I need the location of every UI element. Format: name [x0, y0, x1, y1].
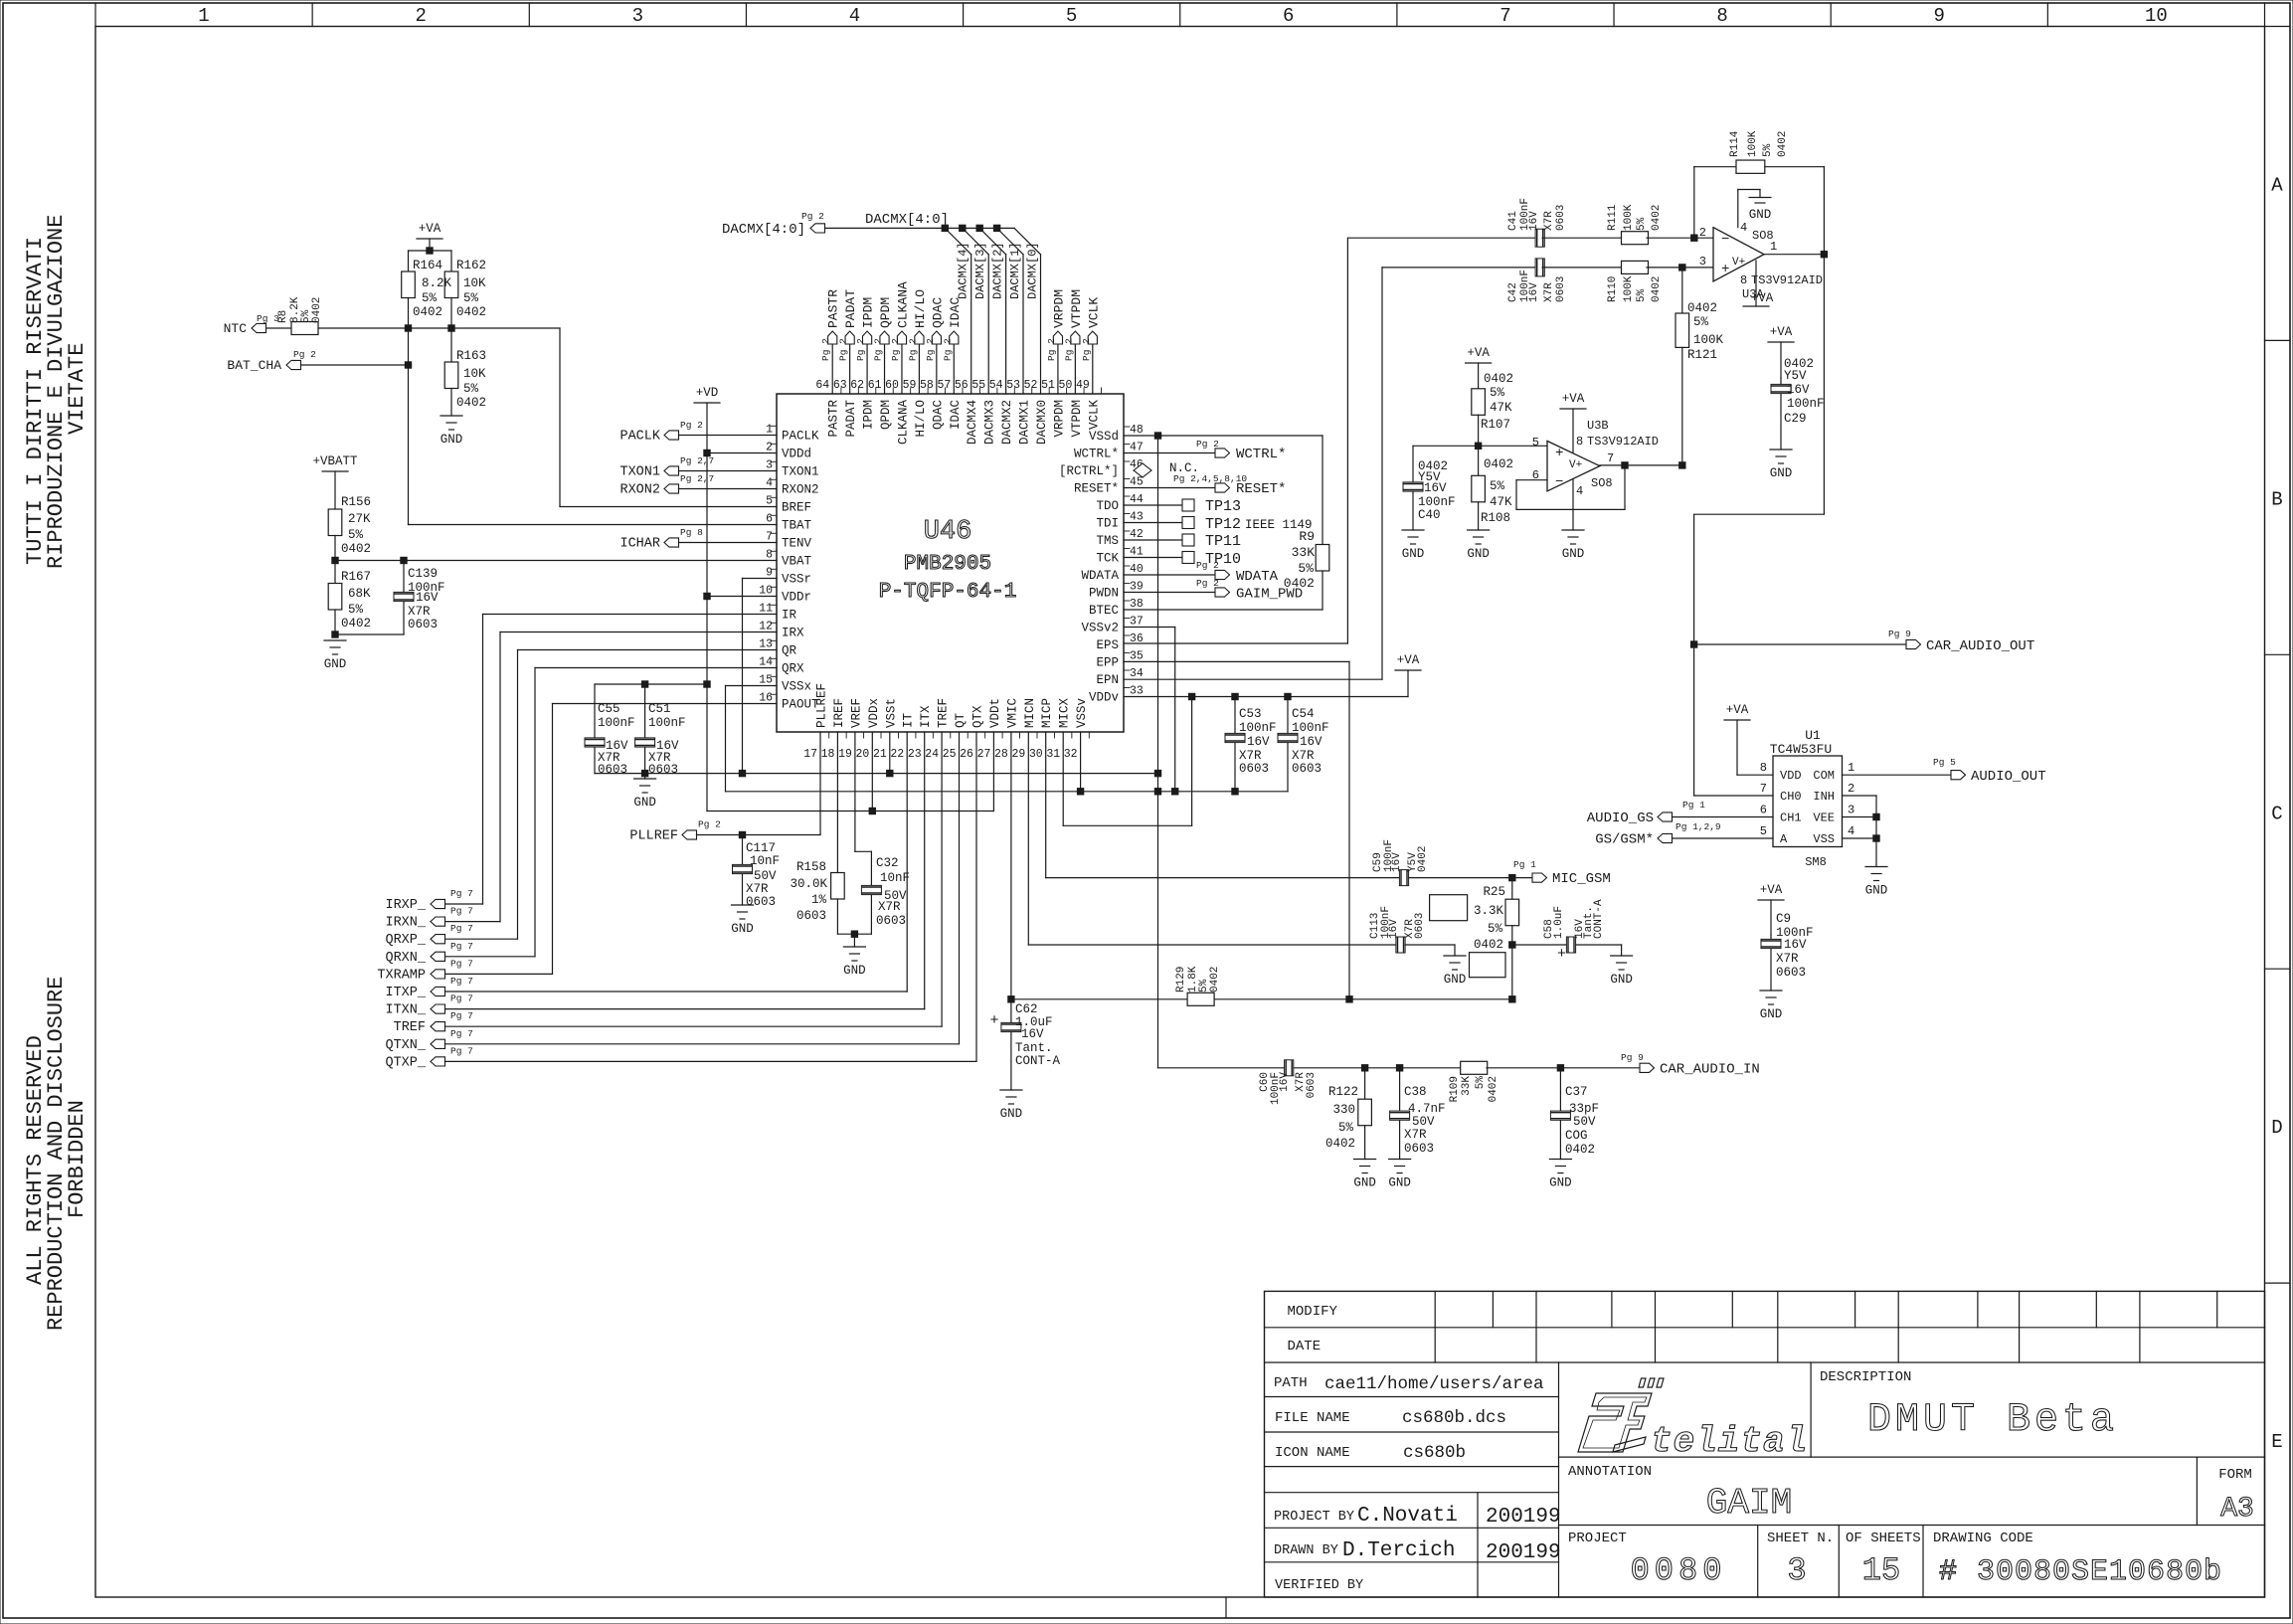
- svg-text:49: 49: [1076, 379, 1090, 392]
- svg-text:0402: 0402: [1651, 276, 1663, 302]
- svg-text:E: E: [2271, 1431, 2282, 1453]
- svg-text:QPDM: QPDM: [878, 297, 893, 328]
- svg-text:DACMX[4:0]: DACMX[4:0]: [865, 212, 949, 228]
- svg-text:Pg 1: Pg 1: [1682, 800, 1705, 811]
- resistor R164 8.2K: [402, 271, 416, 298]
- svg-text:R121: R121: [1687, 348, 1717, 362]
- svg-text:Pg 2: Pg 2: [801, 211, 824, 222]
- svg-text:2: 2: [1699, 226, 1706, 240]
- svg-text:0603: 0603: [1414, 913, 1426, 939]
- svg-text:Pg 2,7: Pg 2,7: [680, 473, 714, 484]
- svg-text:DACMX0: DACMX0: [1035, 400, 1049, 445]
- port WCTRL*: [1124, 452, 1215, 454]
- svg-text:Pg 7: Pg 7: [450, 958, 473, 969]
- svg-text:IEEE 1149: IEEE 1149: [1245, 518, 1313, 532]
- unnamed footprint rectangle 2: [1470, 953, 1506, 978]
- svg-text:0402: 0402: [1777, 131, 1789, 157]
- svg-text:+: +: [1555, 446, 1563, 461]
- svg-text:C54: C54: [1292, 707, 1315, 721]
- svg-text:DACMX[4:0]: DACMX[4:0]: [722, 222, 805, 238]
- svg-text:0603: 0603: [1776, 966, 1806, 980]
- svg-text:Pg 2: Pg 2: [698, 819, 721, 830]
- svg-text:VMIC: VMIC: [1005, 698, 1019, 728]
- svg-text:12: 12: [759, 621, 773, 633]
- svg-text:Pg 7: Pg 7: [450, 1010, 473, 1021]
- svg-text:8: 8: [766, 549, 773, 562]
- svg-text:0603: 0603: [1306, 1072, 1318, 1098]
- svg-text:X7R: X7R: [1543, 211, 1555, 231]
- node VBAT: [332, 557, 338, 563]
- svg-text:NTC: NTC: [224, 321, 248, 336]
- wire MICN pin29 line: [1027, 732, 1029, 945]
- svg-text:33K: 33K: [1292, 545, 1316, 560]
- svg-text:QTX: QTX: [970, 705, 984, 728]
- svg-text:ICHAR: ICHAR: [619, 537, 660, 552]
- ground below C117: [732, 904, 754, 906]
- bus tap DACMX[4]: [942, 225, 948, 231]
- svg-text:24: 24: [925, 748, 939, 761]
- svg-text:5%: 5%: [1298, 561, 1314, 576]
- svg-text:3: 3: [1848, 804, 1854, 817]
- svg-text:QR: QR: [782, 644, 797, 658]
- svg-text:30: 30: [1029, 748, 1043, 761]
- svg-text:TCK: TCK: [1096, 552, 1119, 566]
- wire VSSv2 pin37: [1124, 627, 1175, 629]
- port GAIM_PWD: [1124, 592, 1215, 594]
- svg-text:4: 4: [849, 5, 860, 27]
- svg-text:A: A: [1780, 832, 1788, 846]
- port IDAC pin57: [953, 344, 955, 394]
- svg-text:QRXP_: QRXP_: [385, 933, 426, 948]
- svg-text:16V: 16V: [1424, 481, 1447, 495]
- svg-text:68K: 68K: [348, 587, 371, 601]
- svg-text:200199: 200199: [1486, 1541, 1561, 1564]
- svg-text:TDI: TDI: [1096, 517, 1119, 531]
- svg-text:U46: U46: [924, 517, 972, 547]
- svg-text:0402: 0402: [456, 396, 486, 410]
- svg-text:0402: 0402: [1565, 1143, 1595, 1157]
- svg-text:X7R: X7R: [1292, 749, 1315, 763]
- svg-text:2: 2: [1848, 782, 1854, 796]
- svg-text:27K: 27K: [348, 512, 371, 526]
- svg-text:RXON2: RXON2: [782, 483, 819, 497]
- svg-text:C37: C37: [1565, 1085, 1588, 1099]
- svg-text:PASTR: PASTR: [826, 289, 841, 328]
- svg-text:R8: R8: [277, 310, 289, 323]
- wire U3B output: [1600, 464, 1682, 466]
- svg-text:R114: R114: [1729, 130, 1741, 157]
- svg-text:QTXP_: QTXP_: [385, 1055, 426, 1070]
- svg-text:5%: 5%: [1693, 315, 1709, 329]
- svg-text:5%: 5%: [1490, 386, 1505, 400]
- ground bus H2: [726, 791, 1289, 793]
- svg-text:+: +: [1721, 262, 1729, 277]
- svg-text:5: 5: [766, 495, 773, 508]
- svg-text:47K: 47K: [1490, 401, 1512, 415]
- resistor R158 30.0K on IREF pin18: [836, 732, 838, 873]
- svg-text:C32: C32: [876, 856, 899, 870]
- port AUDIO_OUT: [1843, 774, 1952, 776]
- wire +VD to VDDr pin10: [704, 593, 710, 599]
- svg-text:1.0uF: 1.0uF: [1553, 906, 1565, 939]
- svg-text:8: 8: [1740, 273, 1747, 287]
- svg-text:1: 1: [198, 5, 209, 27]
- svg-text:IPDM: IPDM: [861, 297, 876, 328]
- svg-text:VSSd: VSSd: [1089, 430, 1119, 444]
- svg-text:COM: COM: [1813, 769, 1835, 783]
- svg-text:TBAT: TBAT: [782, 519, 812, 533]
- svg-text:MODIFY: MODIFY: [1288, 1304, 1338, 1320]
- svg-text:+VA: +VA: [1770, 325, 1793, 339]
- svg-text:8.2K: 8.2K: [422, 276, 452, 290]
- svg-text:CH0: CH0: [1780, 790, 1802, 804]
- wire IRX pin12 to IRXN_: [500, 632, 777, 633]
- capacitor C117 10nF: [742, 835, 744, 906]
- svg-text:62: 62: [850, 379, 864, 392]
- svg-text:61: 61: [868, 379, 882, 392]
- svg-text:VRPDM: VRPDM: [1051, 289, 1066, 328]
- capacitor C113 100nF: [1396, 937, 1405, 953]
- svg-text:Pg 2: Pg 2: [1196, 439, 1219, 450]
- svg-text:3: 3: [1699, 255, 1706, 269]
- svg-text:R158: R158: [796, 860, 826, 874]
- svg-text:GND: GND: [1444, 973, 1467, 987]
- svg-text:R109: R109: [1449, 1076, 1461, 1102]
- svg-text:7: 7: [1607, 451, 1614, 465]
- svg-text:TXON1: TXON1: [619, 465, 660, 480]
- wire to TBAT: [408, 328, 410, 525]
- svg-text:16V: 16V: [1391, 852, 1403, 872]
- capacitor C53 100nF: [1234, 697, 1236, 792]
- svg-text:Pg 2: Pg 2: [907, 338, 918, 361]
- wire EPP pin35 to mic bias line: [1124, 660, 1349, 662]
- ground below C58: [1611, 955, 1633, 957]
- svg-text:5%: 5%: [463, 291, 479, 305]
- svg-text:GND: GND: [843, 964, 866, 978]
- svg-text:5: 5: [1532, 436, 1539, 450]
- svg-text:AUDIO_OUT: AUDIO_OUT: [1971, 769, 2046, 785]
- svg-text:DMUT Beta: DMUT Beta: [1867, 1398, 2118, 1443]
- svg-text:VSSt: VSSt: [884, 698, 898, 728]
- svg-text:33: 33: [1130, 685, 1144, 698]
- svg-text:GND: GND: [324, 657, 347, 671]
- node +VA rail: [409, 250, 452, 252]
- svg-text:23: 23: [908, 748, 922, 761]
- svg-text:TDO: TDO: [1096, 499, 1119, 513]
- ground below C38: [1389, 1159, 1411, 1161]
- svg-text:CONT-A: CONT-A: [1015, 1054, 1061, 1068]
- svg-text:5: 5: [1760, 824, 1767, 838]
- svg-text:TXON1: TXON1: [782, 465, 819, 479]
- svg-text:100K: 100K: [1623, 275, 1635, 302]
- svg-text:VEE: VEE: [1813, 812, 1835, 825]
- capacitor C59 100nF: [1399, 870, 1408, 886]
- svg-text:0402: 0402: [1488, 1076, 1499, 1102]
- resistor R111 100K: [1542, 237, 1623, 239]
- svg-text:16V: 16V: [1247, 735, 1270, 749]
- resistor R129 1.8K: [1187, 992, 1214, 1005]
- svg-text:Pg 1,2,9: Pg 1,2,9: [1676, 821, 1721, 832]
- wire VMIC pin28 line: [1010, 732, 1012, 999]
- svg-text:10K: 10K: [463, 367, 486, 381]
- svg-text:V+: V+: [1569, 459, 1582, 471]
- capacitor C40 100nF: [1412, 446, 1414, 530]
- svg-text:42: 42: [1130, 528, 1144, 541]
- svg-text:4: 4: [1740, 221, 1747, 235]
- svg-text:PACLK: PACLK: [619, 430, 660, 445]
- svg-text:8: 8: [1576, 435, 1583, 449]
- svg-text:GND: GND: [1000, 1107, 1023, 1121]
- svg-text:DACMX[0]: DACMX[0]: [1026, 242, 1040, 299]
- svg-text:PROJECT: PROJECT: [1568, 1531, 1627, 1546]
- svg-text:C: C: [2271, 803, 2282, 824]
- no-connect diamond RCTRL pin46: [1134, 463, 1151, 477]
- svg-text:A3: A3: [2220, 1494, 2254, 1525]
- wire NTC node: [318, 327, 409, 329]
- svg-text:PROJECT BY: PROJECT BY: [1274, 1510, 1354, 1525]
- svg-text:IDAC: IDAC: [949, 400, 963, 430]
- capacitor C51 100nF: [644, 684, 646, 774]
- svg-text:GAIM_PWD: GAIM_PWD: [1236, 587, 1303, 603]
- svg-text:0603: 0603: [1555, 205, 1567, 231]
- svg-text:TREF: TREF: [394, 1020, 426, 1035]
- svg-text:50: 50: [1059, 379, 1073, 392]
- svg-text:+VD: +VD: [696, 386, 719, 400]
- wire PLLREF to pin17: [697, 834, 821, 836]
- capacitor C42 100nF: [1382, 267, 1538, 269]
- wire VDDv pin33 to +VA: [1124, 696, 1408, 698]
- svg-text:SO8: SO8: [1591, 476, 1613, 490]
- svg-text:VSSv: VSSv: [1075, 697, 1089, 728]
- svg-text:X7R: X7R: [746, 882, 769, 896]
- svg-text:26: 26: [960, 748, 973, 761]
- svg-text:X7R: X7R: [878, 900, 901, 914]
- svg-text:C38: C38: [1404, 1085, 1427, 1099]
- svg-text:+VA: +VA: [1751, 291, 1774, 305]
- svg-text:X7R: X7R: [1404, 1128, 1427, 1142]
- resistor R9 33K: [1316, 545, 1329, 572]
- resistor R109 33K: [1461, 1061, 1488, 1074]
- svg-text:5%: 5%: [1488, 922, 1503, 936]
- svg-text:20: 20: [856, 748, 870, 761]
- svg-text:0603: 0603: [408, 618, 438, 632]
- svg-text:VCLK: VCLK: [1086, 297, 1101, 328]
- svg-text:200199: 200199: [1486, 1506, 1561, 1529]
- svg-text:MIC_GSM: MIC_GSM: [1552, 871, 1611, 887]
- svg-text:Pg 7: Pg 7: [450, 1028, 473, 1039]
- svg-text:C9: C9: [1776, 912, 1791, 926]
- svg-text:CONT-A: CONT-A: [1593, 899, 1605, 939]
- svg-text:TP13: TP13: [1205, 498, 1241, 515]
- svg-text:45: 45: [1130, 476, 1144, 489]
- svg-text:X7R: X7R: [1543, 282, 1555, 302]
- test point TP10 pin41: [1124, 557, 1182, 559]
- svg-text:X7R: X7R: [1776, 952, 1799, 966]
- svg-text:WDATA: WDATA: [1236, 569, 1279, 585]
- svg-text:Pg 2: Pg 2: [1196, 578, 1219, 589]
- svg-text:−: −: [1721, 232, 1729, 248]
- svg-text:0402: 0402: [1325, 1137, 1355, 1151]
- svg-text:QDAC: QDAC: [930, 297, 945, 328]
- right row-letter strip: [2265, 339, 2291, 341]
- svg-text:+VBATT: +VBATT: [312, 454, 358, 468]
- svg-text:19: 19: [838, 748, 852, 761]
- svg-text:TP12: TP12: [1205, 516, 1241, 533]
- svg-text:+VA: +VA: [1467, 346, 1490, 360]
- svg-text:Pg 9: Pg 9: [1621, 1052, 1644, 1063]
- svg-text:4.7nF: 4.7nF: [1408, 1102, 1446, 1116]
- svg-text:MICX: MICX: [1058, 697, 1072, 728]
- svg-text:VDDt: VDDt: [988, 698, 1002, 728]
- svg-text:GND: GND: [1549, 1176, 1572, 1190]
- svg-text:VERIFIED BY: VERIFIED BY: [1275, 1578, 1363, 1593]
- wire VSSd net vertical: [1154, 433, 1160, 439]
- wire VSSd pin48: [1124, 435, 1158, 437]
- title block row lines: [1265, 1327, 2265, 1329]
- svg-text:2: 2: [415, 5, 426, 27]
- svg-text:50V: 50V: [754, 869, 777, 883]
- svg-text:PADAT: PADAT: [843, 289, 858, 328]
- svg-text:cae11/home/users/area: cae11/home/users/area: [1324, 1374, 1544, 1394]
- svg-text:C62: C62: [1015, 1002, 1038, 1016]
- svg-text:CAR_AUDIO_OUT: CAR_AUDIO_OUT: [1926, 638, 2034, 654]
- svg-text:INH: INH: [1813, 790, 1835, 804]
- svg-text:PWDN: PWDN: [1089, 587, 1119, 601]
- svg-text:16: 16: [759, 692, 773, 705]
- svg-text:IR: IR: [782, 609, 797, 623]
- svg-text:GND: GND: [1402, 547, 1425, 561]
- svg-text:TMS: TMS: [1096, 534, 1119, 548]
- svg-text:DRAWN BY: DRAWN BY: [1274, 1543, 1338, 1558]
- wire U1 CH0: [1694, 795, 1773, 797]
- svg-text:0402: 0402: [311, 297, 323, 323]
- svg-text:+: +: [989, 1012, 998, 1029]
- svg-text:34: 34: [1130, 667, 1144, 680]
- svg-text:21: 21: [873, 748, 887, 761]
- port VTPDM pin50: [1074, 344, 1076, 394]
- svg-text:10: 10: [2145, 5, 2168, 27]
- svg-text:PASTR: PASTR: [827, 400, 841, 438]
- svg-text:100K: 100K: [1693, 333, 1724, 347]
- wire output down to U1 CH0: [1823, 255, 1825, 515]
- svg-text:R111: R111: [1607, 204, 1619, 231]
- svg-text:0603: 0603: [876, 914, 906, 928]
- svg-text:GND: GND: [1749, 208, 1772, 222]
- svg-text:MICN: MICN: [1023, 698, 1037, 728]
- svg-text:EPS: EPS: [1096, 638, 1119, 652]
- port PASTR pin64: [831, 344, 833, 394]
- svg-text:ANNOTATION: ANNOTATION: [1568, 1464, 1652, 1480]
- svg-text:4: 4: [1848, 824, 1854, 838]
- svg-text:TC4W53FU: TC4W53FU: [1770, 742, 1832, 757]
- wire VSSx pin15: [726, 685, 778, 687]
- wire R9 top segment: [1158, 435, 1323, 437]
- svg-text:R107: R107: [1481, 418, 1510, 432]
- svg-text:0603: 0603: [746, 895, 776, 909]
- svg-text:TS3V912AID: TS3V912AID: [1751, 273, 1823, 287]
- svg-text:30.0K: 30.0K: [790, 877, 827, 891]
- resistor R108 47K: [1478, 446, 1480, 475]
- svg-text:Pg 7: Pg 7: [450, 888, 473, 899]
- svg-text:Pg 9: Pg 9: [1888, 629, 1911, 639]
- capacitor C60 100nF: [1285, 1060, 1294, 1076]
- svg-text:40: 40: [1130, 563, 1144, 576]
- svg-text:100nF: 100nF: [648, 716, 686, 730]
- svg-text:GAIM: GAIM: [1706, 1483, 1792, 1524]
- svg-text:WCTRL*: WCTRL*: [1074, 448, 1119, 461]
- svg-text:VSS: VSS: [1813, 832, 1835, 846]
- svg-text:52: 52: [1024, 379, 1038, 392]
- svg-text:DACMX[1]: DACMX[1]: [1008, 242, 1022, 299]
- svg-text:16V: 16V: [416, 591, 439, 605]
- ground below U1: [1865, 866, 1887, 868]
- svg-text:Pg 2: Pg 2: [942, 338, 953, 361]
- svg-text:QDAC: QDAC: [931, 400, 945, 430]
- svg-text:GND: GND: [731, 922, 754, 936]
- ground below R163: [441, 415, 462, 417]
- node U3B plus input: [1475, 443, 1481, 449]
- svg-text:7: 7: [1499, 5, 1510, 27]
- svg-text:AUDIO_GS: AUDIO_GS: [1587, 811, 1654, 826]
- resistor R107 47K: [1472, 389, 1486, 416]
- svg-text:50V: 50V: [1412, 1115, 1435, 1129]
- svg-text:Pg 2: Pg 2: [820, 338, 831, 361]
- svg-text:0402: 0402: [1209, 967, 1221, 992]
- svg-text:33K: 33K: [1461, 1076, 1473, 1096]
- svg-text:Pg 2: Pg 2: [293, 349, 316, 360]
- wire to BREF: [451, 327, 560, 329]
- svg-text:HI/LO: HI/LO: [914, 400, 928, 438]
- svg-text:VREF: VREF: [849, 698, 863, 728]
- svg-text:Pg 2: Pg 2: [680, 420, 703, 431]
- svg-text:FORM: FORM: [2218, 1467, 2252, 1483]
- port IPDM pin62: [866, 344, 868, 394]
- svg-text:2: 2: [766, 442, 773, 454]
- svg-text:Pg 2: Pg 2: [873, 338, 884, 361]
- svg-text:63: 63: [833, 379, 847, 392]
- svg-text:ITXP_: ITXP_: [385, 986, 426, 1000]
- svg-text:0402: 0402: [341, 542, 371, 556]
- svg-text:100nF: 100nF: [1239, 721, 1277, 735]
- svg-text:60: 60: [885, 379, 899, 392]
- svg-text:5%: 5%: [1636, 288, 1648, 302]
- svg-text:Pg 7: Pg 7: [450, 1045, 473, 1056]
- svg-text:3: 3: [632, 5, 643, 27]
- ground below C62: [1000, 1089, 1022, 1091]
- svg-text:DACMX[3]: DACMX[3]: [973, 242, 987, 299]
- svg-text:C53: C53: [1239, 707, 1262, 721]
- ground bus H1: [595, 773, 1158, 775]
- svg-text:3: 3: [766, 459, 773, 472]
- svg-text:58: 58: [920, 379, 934, 392]
- svg-text:VDDr: VDDr: [782, 591, 811, 605]
- svg-text:B: B: [2271, 488, 2282, 510]
- wire VSSt pin21 to ground bus: [889, 732, 891, 774]
- capacitor C37 33pF: [1559, 1068, 1561, 1160]
- svg-text:PATH: PATH: [1274, 1375, 1308, 1391]
- svg-text:13: 13: [759, 638, 773, 651]
- svg-text:IDAC: IDAC: [948, 297, 963, 328]
- wire EPN pin34: [1124, 678, 1382, 680]
- svg-text:VTPDM: VTPDM: [1069, 289, 1084, 328]
- svg-text:MICP: MICP: [1040, 698, 1054, 728]
- svg-text:IRXN_: IRXN_: [385, 916, 426, 931]
- svg-text:330: 330: [1332, 1103, 1355, 1117]
- svg-text:WCTRL*: WCTRL*: [1236, 447, 1286, 462]
- wire QRX pin14 to QRXN_: [535, 667, 777, 669]
- svg-text:16V: 16V: [1279, 1072, 1291, 1092]
- svg-text:1: 1: [1770, 240, 1777, 254]
